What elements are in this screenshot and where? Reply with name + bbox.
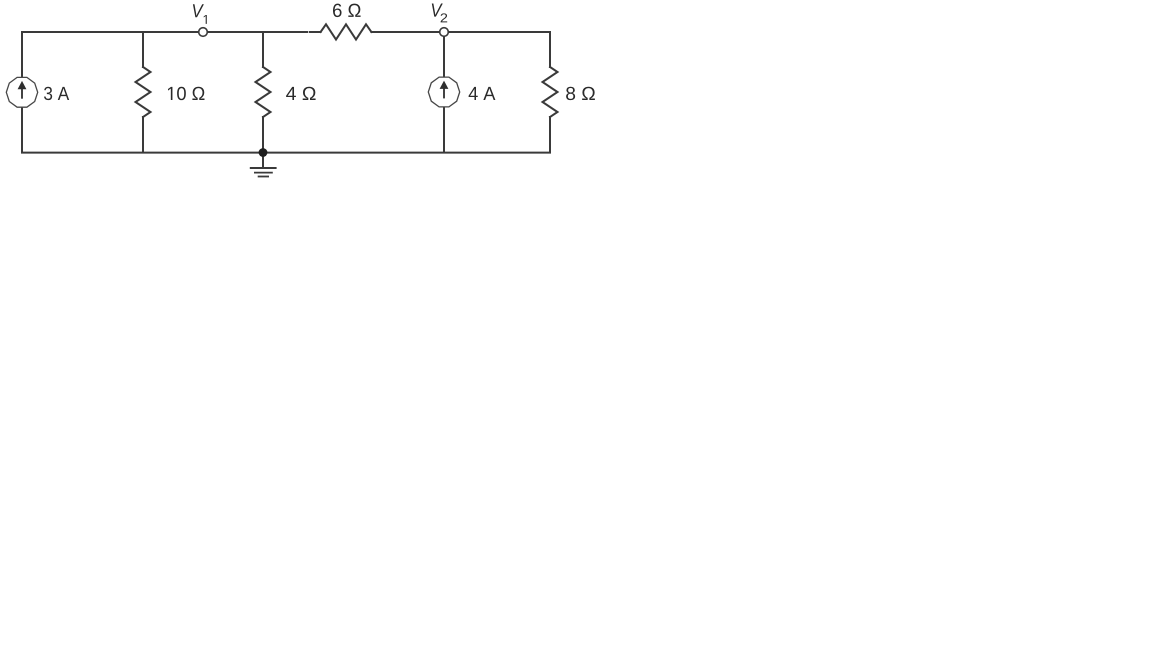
resistor 4 ohm (vertical zigzag) <box>256 67 271 117</box>
wire 4ohm branch lower <box>262 117 264 153</box>
wire 10ohm branch lower <box>142 117 144 153</box>
current source I2 4A arrow <box>440 81 449 99</box>
label 4 A <box>469 87 496 100</box>
label 6 ohm <box>333 4 361 17</box>
wire right vertical lower <box>549 117 551 153</box>
current source I1 3A arrow <box>18 81 27 99</box>
current source I2 4A circle <box>428 77 459 107</box>
wire left vertical upper <box>21 32 23 77</box>
node V2 circle <box>440 28 449 37</box>
label 8 ohm <box>566 87 595 100</box>
resistor 8 ohm (vertical zigzag) <box>543 67 558 117</box>
current source I1 3A circle <box>6 77 37 107</box>
wire ground stub <box>262 153 264 168</box>
node V1 circle <box>199 28 208 37</box>
label V1 <box>193 4 207 24</box>
wire top-left segment <box>22 31 307 33</box>
label 4 ohm <box>286 87 316 100</box>
label 3 A <box>44 87 69 100</box>
wire left vertical lower <box>21 108 23 153</box>
wire 4ohm branch upper <box>262 32 264 67</box>
resistor 10 ohm (vertical zigzag) <box>136 67 151 117</box>
junction dot at ground node <box>259 148 268 157</box>
wire 4A branch upper <box>443 36 445 77</box>
wire 4A branch lower <box>443 108 445 153</box>
label 10 ohm <box>168 87 205 100</box>
wire bottom <box>22 152 550 154</box>
wire 10ohm branch upper <box>142 32 144 67</box>
wire short segment before R 6ohm <box>310 31 321 33</box>
label V2 <box>432 4 447 23</box>
wire right vertical upper <box>549 32 551 67</box>
ground <box>250 168 277 177</box>
resistor 6 ohm (horizontal zigzag) <box>321 24 372 39</box>
wire top-right segment <box>371 31 550 33</box>
